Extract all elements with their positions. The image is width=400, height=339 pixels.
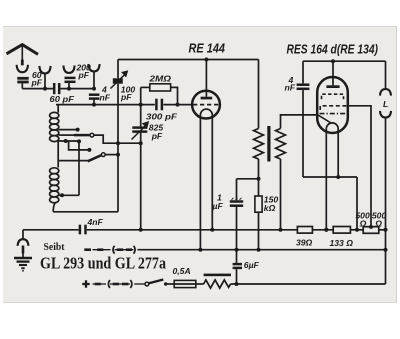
socket for 200pF bbox=[63, 66, 74, 73]
label Seibt bbox=[44, 241, 65, 253]
svg-text:0,5A: 0,5A bbox=[173, 266, 191, 276]
svg-text:2MΩ: 2MΩ bbox=[148, 74, 171, 84]
label 6uF bbox=[244, 260, 260, 270]
svg-text:RE 144: RE 144 bbox=[189, 42, 226, 56]
coil tap C bbox=[59, 139, 92, 152]
resistor 39 ohm bbox=[297, 227, 312, 234]
svg-text:6µF: 6µF bbox=[244, 260, 260, 270]
plus rail y=284 bbox=[82, 280, 145, 288]
svg-text:39Ω: 39Ω bbox=[296, 238, 313, 248]
label 100 pF bbox=[120, 85, 135, 103]
svg-text:µF: µF bbox=[212, 201, 224, 211]
svg-text:RES 164 d(RE 134): RES 164 d(RE 134) bbox=[287, 43, 379, 57]
capacitor 300pF grid bbox=[156, 99, 162, 111]
wire coil bottom return bbox=[53, 211, 118, 213]
wire screen to tap bbox=[347, 106, 374, 229]
label 4 nF anode bbox=[285, 75, 296, 93]
speaker jack L bbox=[380, 61, 391, 284]
wire antenna bus y=88.6 bbox=[22, 88, 94, 90]
transformer primary winding bbox=[254, 129, 264, 160]
svg-text:L: L bbox=[383, 99, 388, 109]
capacitor 200pF bbox=[65, 78, 76, 89]
wire RE144 filament left leg bbox=[199, 118, 201, 250]
coil L1 upper winding bbox=[50, 105, 59, 168]
svg-text:pF: pF bbox=[120, 92, 132, 102]
coil tap A bbox=[59, 128, 80, 132]
svg-text:133 Ω: 133 Ω bbox=[330, 238, 354, 248]
capacitor 60pF series bbox=[54, 83, 59, 94]
wire tap D bbox=[58, 160, 88, 162]
barretter resistor bbox=[204, 274, 386, 289]
wire cathode row bbox=[303, 177, 359, 232]
wire RES164 filament left leg bbox=[324, 132, 328, 232]
capacitor 4nF ground bbox=[80, 225, 86, 235]
junction dot bbox=[43, 87, 47, 91]
resistor 500+500 ohm center tapped bbox=[363, 227, 379, 234]
label GL 293 und GL 277a bbox=[40, 254, 166, 273]
svg-text:Seibt: Seibt bbox=[44, 241, 65, 253]
svg-text:Ω: Ω bbox=[374, 219, 382, 229]
ground symbol bbox=[14, 230, 32, 272]
wire secondary top to grid bbox=[281, 115, 318, 129]
capacitor 6uF bbox=[233, 264, 242, 286]
label RE 144 bbox=[189, 42, 226, 56]
junction dot bbox=[92, 103, 96, 107]
wire anode top bus right bbox=[303, 60, 386, 62]
label RES 164 d(RE 134) bbox=[287, 43, 379, 57]
resistor 133 ohm bbox=[333, 227, 350, 234]
label 0,5A bbox=[173, 266, 191, 276]
antenna socket bbox=[17, 65, 28, 72]
svg-text:Ω: Ω bbox=[359, 219, 367, 229]
label 39 ohm bbox=[296, 238, 313, 248]
label 1 uF bbox=[212, 193, 224, 212]
wire primary bottom to 150k bbox=[257, 159, 261, 196]
label L bbox=[383, 99, 388, 109]
capacitor 60pF antenna bbox=[17, 78, 28, 88]
label 825 pF bbox=[149, 123, 164, 142]
svg-text:60 pF: 60 pF bbox=[50, 94, 75, 104]
labels 500 ohm 500 ohm bbox=[355, 211, 386, 229]
junction dot 39-133 bbox=[324, 228, 328, 232]
capacitor 4nF input bbox=[89, 95, 100, 105]
label 4nF ground bbox=[87, 217, 104, 227]
svg-text:pF: pF bbox=[78, 70, 90, 80]
label 60pF bbox=[31, 70, 43, 88]
junction dot bbox=[92, 87, 96, 91]
capacitor 1uF bbox=[230, 179, 259, 264]
label 60 pF bbox=[50, 94, 75, 104]
svg-text:pF: pF bbox=[31, 78, 43, 88]
label 4 nF bbox=[100, 85, 111, 103]
fuse 0,5A bbox=[174, 280, 203, 287]
coil lower tap bbox=[59, 193, 79, 197]
label 200 pF bbox=[76, 63, 92, 81]
label 150 kohm bbox=[264, 195, 279, 214]
variable capacitor 825pF bbox=[132, 87, 149, 231]
svg-text:GL 293 und GL 277a: GL 293 und GL 277a bbox=[40, 254, 166, 273]
wire top bus y=59.5 bbox=[118, 59, 259, 61]
svg-text:kΩ: kΩ bbox=[264, 203, 276, 213]
triode RE144 bbox=[192, 58, 220, 119]
wire secondary bottom bbox=[279, 159, 283, 232]
coil L2 lower winding bbox=[50, 168, 59, 212]
label 2M ohm bbox=[148, 74, 171, 84]
trimmer capacitor 100pF bbox=[111, 60, 128, 212]
wire grid bus y=104.6 bbox=[56, 104, 192, 106]
capacitor 4nF anode bbox=[297, 61, 310, 177]
switch mains bbox=[145, 280, 174, 286]
socket A2 bbox=[39, 66, 50, 89]
wire RE144 filament right leg bbox=[210, 118, 214, 232]
svg-text:nF: nF bbox=[285, 83, 296, 93]
svg-text:4nF: 4nF bbox=[87, 217, 104, 227]
antenna bbox=[7, 45, 39, 66]
socket A1 bbox=[88, 64, 99, 89]
transformer primary riser bbox=[258, 60, 260, 129]
switch arm S1 closed bbox=[59, 133, 143, 145]
wire RES164 filament right leg bbox=[336, 132, 340, 179]
ground bus y=229.8 bbox=[23, 228, 388, 232]
label 300 pF bbox=[146, 112, 178, 122]
junction dot bbox=[67, 87, 71, 91]
tap link wire bbox=[78, 141, 80, 195]
resistor 150k ohm bbox=[255, 196, 262, 252]
minus rail y=249.7 bbox=[84, 246, 387, 254]
transformer core bbox=[267, 126, 270, 162]
pentode RES164d bbox=[317, 59, 348, 133]
resistor 2M ohm bbox=[141, 84, 180, 107]
transformer secondary winding bbox=[276, 129, 286, 160]
svg-text:pF: pF bbox=[151, 131, 163, 141]
svg-text:300 pF: 300 pF bbox=[146, 112, 178, 122]
switch arm S2 open bbox=[88, 153, 120, 162]
svg-text:nF: nF bbox=[100, 93, 111, 103]
label 133 ohm bbox=[330, 238, 354, 248]
